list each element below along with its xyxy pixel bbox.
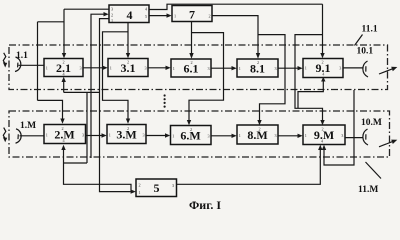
ellipsis dots between rows bbox=[164, 94, 166, 96]
svg-text:3: 3 bbox=[339, 66, 341, 71]
svg-text:2: 2 bbox=[111, 13, 113, 18]
wire: block4 bottom pin down into 3.1 top bbox=[127, 23, 129, 54]
arrow into block4 pin2 bbox=[104, 12, 109, 16]
svg-text:2: 2 bbox=[258, 126, 260, 131]
row 1 arrow 2.1 to 3.1 bbox=[83, 67, 103, 69]
svg-text:1: 1 bbox=[305, 133, 307, 138]
arrow into 6.M top bbox=[187, 120, 191, 125]
block 6.M bbox=[171, 126, 212, 145]
wire: block4 pin2 input horizontal with vertical x91 bbox=[91, 14, 104, 158]
svg-text:11.1: 11.1 bbox=[362, 25, 378, 35]
block 2.M bbox=[44, 125, 86, 144]
block 9.M bbox=[303, 125, 345, 145]
svg-text:1: 1 bbox=[172, 134, 174, 139]
svg-text:3: 3 bbox=[144, 66, 146, 71]
wire: horizontal y21.8 from x37.5 to x64 bbox=[38, 21, 65, 23]
svg-text:10.1: 10.1 bbox=[357, 47, 374, 57]
svg-text:11.M: 11.M bbox=[358, 185, 378, 195]
wire: branch y34.6 to x295 down to 9.M bbox=[295, 35, 323, 121]
svg-text:2: 2 bbox=[61, 126, 63, 131]
antenna 1.M arc bbox=[16, 129, 22, 143]
svg-text:2: 2 bbox=[127, 60, 129, 65]
incoming wave arrow 1.1 bbox=[3, 53, 6, 64]
svg-text:Фиг. I: Фиг. I bbox=[189, 198, 221, 212]
svg-text:3: 3 bbox=[172, 183, 174, 188]
arrow into block5 pin1 bbox=[131, 189, 136, 193]
arrow into block7 pin1 bbox=[167, 13, 172, 17]
wire: right side vertical x354 down and into 9.M bottom bbox=[324, 90, 354, 165]
svg-text:2: 2 bbox=[62, 60, 64, 65]
wire: block4 pin4 output up over the top to 9.1 bbox=[149, 4, 323, 9]
antenna 1.M wire bbox=[20, 135, 45, 137]
block 5 bbox=[136, 179, 177, 197]
arrow up into 9.1 bottom bbox=[321, 77, 325, 82]
svg-text:1: 1 bbox=[110, 66, 112, 71]
row 1 arrow 3.1 to 6.1 bbox=[148, 67, 166, 69]
svg-text:2: 2 bbox=[208, 13, 210, 18]
block 9.1 bbox=[303, 59, 343, 78]
row 1 arrow 6.1 to 8.1 bbox=[211, 67, 232, 69]
arrow into 3.M top bbox=[126, 119, 130, 124]
svg-text:1.1: 1.1 bbox=[16, 51, 28, 61]
antenna 1.1 tick bbox=[17, 63, 19, 68]
antenna 1.M tick bbox=[17, 134, 19, 139]
svg-text:1.M: 1.M bbox=[20, 121, 36, 131]
svg-text:3: 3 bbox=[142, 133, 144, 138]
antenna 1.1 wire bbox=[19, 64, 45, 66]
wire: 9.1 bottom feed from y108.3 rail bbox=[298, 81, 323, 108]
svg-text:1: 1 bbox=[111, 18, 113, 23]
wire: block4 output to block7 input bbox=[149, 15, 167, 17]
antenna 10.1 tick bbox=[365, 66, 367, 71]
svg-text:1: 1 bbox=[174, 13, 176, 18]
svg-text:3: 3 bbox=[79, 66, 81, 71]
outgoing arrow 10.M bbox=[379, 142, 393, 147]
wire: block7 bottom pin down into 6.1 top bbox=[191, 22, 193, 54]
arrow up into 2.M bottom bbox=[61, 145, 65, 150]
wire: 2.M top feed jog and drop bbox=[38, 100, 63, 119]
svg-text:5: 5 bbox=[154, 181, 160, 195]
row M arrow 8.M to 9.M bbox=[278, 135, 298, 137]
arrow into 6.1 top bbox=[189, 53, 193, 59]
wire: horizontal y92.4 x63.7 to x99.5 bbox=[64, 91, 100, 93]
svg-text:3: 3 bbox=[111, 7, 113, 12]
svg-text:10.M: 10.M bbox=[361, 118, 382, 128]
svg-text:2: 2 bbox=[321, 126, 323, 131]
antenna 10.M tick bbox=[365, 134, 367, 139]
svg-text:7: 7 bbox=[189, 8, 195, 22]
arrow up into 9.M bottom bbox=[322, 145, 326, 150]
arrow into 9.1 top bbox=[320, 53, 324, 58]
svg-text:1: 1 bbox=[239, 133, 241, 138]
wire: jog y163 to x87 up to y92.4 bbox=[64, 92, 88, 163]
block 6.1 bbox=[171, 59, 211, 77]
row M arrow 2.M to 3.M bbox=[86, 135, 102, 137]
antenna 10.1 arc bbox=[363, 61, 368, 77]
arrow up into 9.M bottom from block5 bbox=[318, 145, 322, 150]
block 7 bbox=[172, 6, 212, 22]
wire: 2.M bottom feed vertical x63.5 bbox=[63, 150, 65, 164]
svg-text:3: 3 bbox=[207, 134, 209, 139]
svg-text:3: 3 bbox=[341, 133, 343, 138]
wire: block5 output to 9.M bottom bbox=[177, 150, 321, 185]
wire: top line drop into 9.1 top bbox=[322, 4, 324, 53]
svg-text:2: 2 bbox=[321, 60, 323, 65]
svg-text:3: 3 bbox=[274, 133, 276, 138]
arrow into 2.M top bbox=[60, 119, 64, 124]
arrow into 8.M top bbox=[257, 120, 261, 125]
wire: branch y34.6 to x285 down to 8.M bbox=[258, 35, 285, 121]
wire: branch y31.8 to x102.5 down to 3.M bbox=[103, 32, 129, 119]
svg-text:1: 1 bbox=[46, 133, 48, 138]
svg-text:9.М: 9.М bbox=[314, 128, 334, 142]
svg-text:3: 3 bbox=[207, 66, 209, 71]
svg-text:2: 2 bbox=[190, 127, 192, 132]
row M arrow 3.M to 6.M bbox=[146, 135, 165, 137]
svg-text:1: 1 bbox=[109, 133, 111, 138]
block 4 bbox=[109, 5, 149, 23]
wire: block4 pin3 input from junction x64 bbox=[64, 8, 109, 10]
antenna 10.M wire bbox=[345, 137, 363, 139]
wire: branch y32.6 to x223.5 down to 6.M bbox=[189, 33, 224, 121]
svg-text:4: 4 bbox=[127, 8, 133, 22]
svg-text:3: 3 bbox=[82, 133, 84, 138]
antenna 10.1 wire bbox=[343, 67, 363, 69]
incoming wave arrow 1.M bbox=[3, 128, 6, 139]
svg-text:1: 1 bbox=[239, 66, 241, 71]
block 8.M bbox=[237, 125, 278, 144]
row 1 arrow 8.1 to 9.1 bbox=[278, 67, 298, 69]
dashed box 11.1 (row 1 enclosure) bbox=[9, 45, 388, 90]
dashed box 11.M (row M enclosure) bbox=[9, 111, 390, 157]
antenna 10.M arc bbox=[363, 129, 368, 145]
wire: block7 output right then down into 8.1 top bbox=[212, 16, 258, 54]
arrow into 3.1 top bbox=[126, 53, 130, 58]
svg-text:1: 1 bbox=[46, 66, 48, 71]
wire: bottom distribution into block5 input bbox=[64, 163, 132, 192]
svg-text:1: 1 bbox=[138, 190, 140, 195]
svg-text:3: 3 bbox=[274, 66, 276, 71]
svg-text:2: 2 bbox=[127, 126, 129, 131]
wire: block4 pin1 output down to block5 input bbox=[100, 19, 131, 192]
block 3.1 bbox=[108, 59, 148, 77]
outgoing arrow 10.1 bbox=[379, 69, 393, 74]
row M arrow 6.M to 8.M bbox=[211, 135, 232, 137]
svg-text:1: 1 bbox=[173, 66, 175, 71]
wire: vertical x64 down into 2.1 top bbox=[63, 9, 65, 53]
wire: 2.1 bottom feed up from y92.4 bbox=[63, 82, 65, 93]
antenna 1.1 arc bbox=[15, 57, 21, 72]
arrow up into 2.1 bottom bbox=[62, 77, 66, 82]
block 2.1 bbox=[44, 59, 83, 77]
svg-text:5: 5 bbox=[145, 14, 147, 19]
arrow into 9.M top bbox=[320, 120, 324, 125]
svg-text:1: 1 bbox=[305, 66, 307, 71]
block 8.1 bbox=[237, 59, 278, 77]
arrow into 8.1 top bbox=[256, 53, 260, 59]
block 3.M bbox=[107, 125, 146, 144]
wire: vertical x37.5 down to 2.M-top feed bbox=[37, 22, 39, 101]
svg-text:2: 2 bbox=[138, 183, 140, 188]
svg-text:2: 2 bbox=[190, 60, 192, 65]
svg-text:2: 2 bbox=[257, 60, 259, 65]
arrow into 2.1 top bbox=[62, 53, 66, 58]
